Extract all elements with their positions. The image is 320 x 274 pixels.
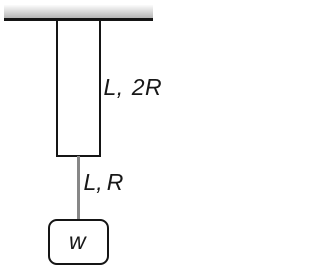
- label L, 2R: [104, 76, 162, 99]
- label w (weight): [69, 230, 86, 253]
- wire L,R (thin gray rod): [77, 156, 81, 219]
- label L, R: [84, 171, 124, 194]
- ceiling gradient band: [4, 5, 153, 19]
- weight box: [48, 219, 109, 266]
- rod L,2R (thick rod outline): [56, 21, 101, 157]
- ceiling bottom black edge: [4, 18, 153, 21]
